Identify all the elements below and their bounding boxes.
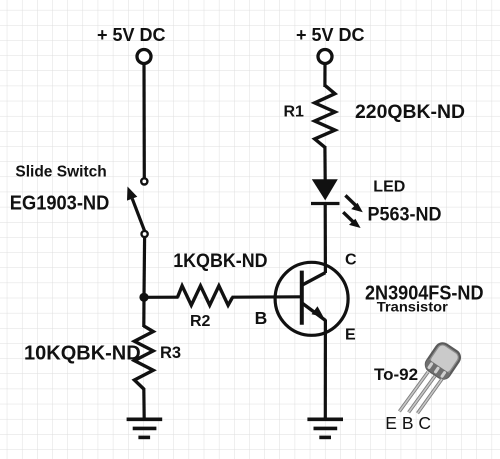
svg-text:Transistor: Transistor [377, 298, 449, 314]
svg-text:+ 5V DC: + 5V DC [97, 25, 166, 45]
node +5V right label [296, 25, 365, 45]
label E B C [385, 413, 431, 433]
wire node A to R2 [144, 296, 179, 299]
label E [345, 327, 356, 344]
svg-text:To-92: To-92 [374, 365, 418, 384]
transistor Q1 base bar [300, 271, 304, 325]
wire transistor emitter to ground right [324, 320, 327, 421]
svg-text:10KQBK-ND: 10KQBK-ND [24, 343, 141, 365]
resistor R2 zigzag [178, 286, 233, 305]
ground right [307, 419, 343, 437]
node +5V left label [97, 25, 166, 45]
label B [255, 308, 268, 328]
svg-text:R2: R2 [190, 313, 211, 330]
wire R1 to LED [323, 146, 327, 181]
LED light arrow 1 [345, 195, 362, 212]
svg-text:R1: R1 [284, 103, 305, 120]
svg-text:E B C: E B C [385, 413, 431, 433]
resistor R3 zigzag [134, 326, 153, 389]
slide switch SW1 lever with arrowhead [127, 187, 145, 232]
svg-text:LED: LED [373, 178, 405, 195]
svg-text:220QBK-ND: 220QBK-ND [355, 102, 465, 123]
wire R2 to transistor base [232, 295, 302, 299]
wire LED to transistor collector [324, 204, 327, 274]
label 2N3904FS-ND [365, 283, 484, 305]
To-92 lead E [399, 372, 428, 411]
wire from switch bottom contact to node A [142, 237, 146, 297]
svg-text:P563-ND: P563-ND [368, 205, 442, 226]
svg-text:+ 5V DC: + 5V DC [296, 25, 365, 45]
LED light arrow 2 [343, 212, 360, 228]
wire +5V right terminal to R1 [323, 63, 326, 87]
label C [345, 252, 357, 269]
label R1 [284, 103, 305, 120]
wire node A to R3 [142, 297, 145, 327]
svg-text:C: C [345, 252, 357, 269]
label To-92 [374, 365, 418, 384]
label R3 [160, 344, 181, 362]
svg-text:Slide Switch: Slide Switch [15, 163, 106, 180]
wire from +5V left terminal to switch top contact [142, 63, 146, 178]
To-92 lead C [418, 379, 443, 413]
transistor Q1 collector diagonal [302, 273, 326, 286]
To-92 lead B [409, 376, 435, 412]
svg-text:1KQBK-ND: 1KQBK-ND [173, 251, 267, 272]
label EG1903-ND [10, 193, 110, 215]
To-92 package body [423, 340, 463, 381]
svg-text:E: E [345, 327, 356, 344]
label 1KQBK-ND [173, 251, 267, 272]
label LED [373, 178, 405, 195]
LED D1 triangle [312, 179, 338, 200]
node +5V right terminal [318, 50, 332, 64]
label R2 [190, 313, 211, 330]
LED D1 cathode bar [311, 202, 340, 205]
label 10KQBK-ND [24, 343, 141, 365]
node A junction dot [139, 293, 148, 302]
node +5V left terminal [137, 50, 151, 64]
label Transistor [377, 298, 449, 314]
svg-text:R3: R3 [160, 344, 181, 362]
slide switch SW1 bottom contact [142, 231, 148, 237]
label P563-ND [368, 205, 442, 226]
ground left [127, 419, 163, 437]
svg-text:B: B [255, 308, 268, 328]
svg-text:EG1903-ND: EG1903-ND [10, 193, 110, 215]
label Slide Switch [15, 163, 106, 180]
resistor R1 zigzag [315, 85, 335, 147]
transistor Q1 circle [275, 262, 348, 335]
wire R3 to ground left [142, 388, 146, 419]
transistor Q1 emitter diagonal with arrowhead [302, 303, 326, 321]
slide switch SW1 top contact [141, 178, 147, 184]
label 220QBK-ND [355, 102, 465, 123]
